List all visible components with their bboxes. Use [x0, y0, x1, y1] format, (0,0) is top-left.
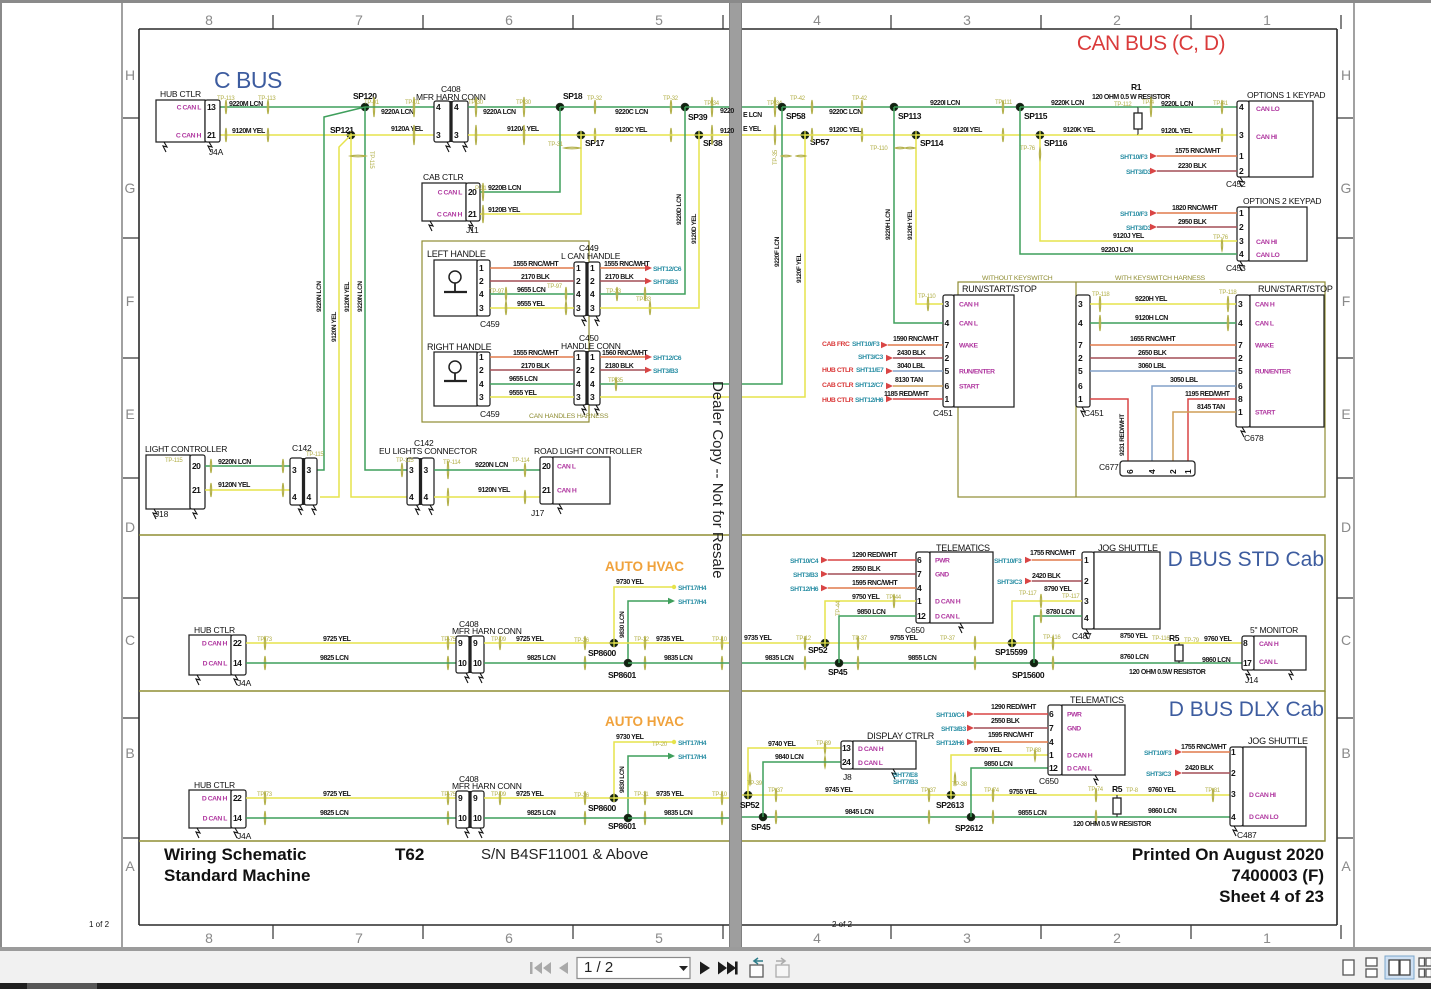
- svg-text:WITHOUT KEYSWITCH: WITHOUT KEYSWITCH: [982, 275, 1053, 282]
- svg-text:9840 LCN: 9840 LCN: [775, 754, 804, 761]
- svg-text:4: 4: [813, 930, 821, 946]
- wire 9825 LCN (hub to C408) STD: [246, 662, 456, 664]
- svg-text:9220I LCN: 9220I LCN: [930, 100, 960, 107]
- svg-text:22: 22: [233, 793, 242, 803]
- page 2 zone letter ticks: [1337, 117, 1353, 119]
- wire 9835 LCN (to page 2) DLX: [628, 817, 729, 819]
- svg-text:9220C LCN: 9220C LCN: [829, 109, 862, 116]
- svg-text:C487: C487: [1072, 631, 1092, 641]
- splice SP39: [681, 103, 689, 111]
- svg-text:TP-11: TP-11: [634, 792, 649, 798]
- svg-text:2170 BLK: 2170 BLK: [605, 274, 634, 281]
- svg-text:CAN L: CAN L: [1255, 321, 1274, 328]
- svg-text:TELEMATICS: TELEMATICS: [1070, 695, 1124, 705]
- prev page button: [559, 962, 568, 974]
- wire 9120A YEL (C408 to SP17): [468, 134, 581, 136]
- svg-text:C CAN H: C CAN H: [176, 133, 202, 140]
- svg-text:9120K YEL: 9120K YEL: [1063, 127, 1096, 134]
- svg-text:H: H: [1341, 67, 1351, 83]
- svg-text:9120B YEL: 9120B YEL: [488, 207, 521, 214]
- svg-text:9120N YEL: 9120N YEL: [331, 312, 338, 342]
- svg-text:D CAN H: D CAN H: [202, 796, 228, 803]
- svg-text:AUTO HVAC: AUTO HVAC: [605, 559, 684, 574]
- wire 9220N LCN (J18 to C142): [205, 465, 290, 467]
- splice SP57: [801, 131, 809, 139]
- svg-text:E LCN: E LCN: [743, 112, 762, 119]
- svg-text:9850 LCN: 9850 LCN: [857, 609, 886, 616]
- svg-text:MFR HARN CONN: MFR HARN CONN: [452, 626, 522, 636]
- svg-text:TP-34: TP-34: [704, 101, 720, 107]
- svg-text:TP-37: TP-37: [940, 636, 956, 642]
- svg-text:9835 LCN: 9835 LCN: [664, 655, 693, 662]
- svg-text:2650 BLK: 2650 BLK: [1138, 350, 1167, 357]
- svg-text:GND: GND: [1067, 726, 1081, 733]
- wire 9120I YEL (SP114 to SP116): [916, 134, 1040, 136]
- layout two page icon selected: [1385, 956, 1414, 979]
- svg-text:D: D: [125, 519, 135, 535]
- svg-text:9120C YEL: 9120C YEL: [829, 127, 862, 134]
- svg-text:8780 LCN: 8780 LCN: [1046, 609, 1075, 616]
- svg-text:SP8600: SP8600: [588, 648, 617, 658]
- svg-text:SHT10/F3: SHT10/F3: [1120, 154, 1148, 161]
- title block separator page 1: [139, 840, 729, 842]
- svg-text:9735 YEL: 9735 YEL: [656, 636, 685, 643]
- wire 9730 YEL DLX: [614, 742, 672, 798]
- svg-text:9120A YEL: 9120A YEL: [391, 126, 424, 133]
- svg-text:TP-115: TP-115: [368, 151, 374, 169]
- svg-text:R5: R5: [1169, 633, 1180, 643]
- svg-text:SHT10/F3: SHT10/F3: [1144, 750, 1172, 757]
- splice SP38: [695, 131, 703, 139]
- svg-text:SHT7/B3: SHT7/B3: [893, 779, 918, 786]
- svg-text:TP-4: TP-4: [1142, 100, 1155, 106]
- wire 9220I LCN (SP113 to SP115): [894, 106, 1020, 108]
- wire 1555 RNC/WHT to SHT12/C6: [600, 267, 648, 269]
- svg-text:9220L LCN: 9220L LCN: [1161, 101, 1193, 108]
- svg-text:9120L YEL: 9120L YEL: [1161, 128, 1193, 135]
- wire 9750 YEL (SP52 up to telem pin1): [825, 601, 916, 643]
- toolbar: [0, 951, 1431, 983]
- svg-text:SHT17/H4: SHT17/H4: [678, 599, 707, 606]
- page 1 drawing frame: [139, 29, 729, 925]
- wire 9825 LCN (C408 on) STD: [484, 662, 628, 664]
- test point TP-115 riser: [350, 155, 366, 157]
- svg-text:D: D: [1341, 519, 1351, 535]
- wire 2650 BLK C451 to C678: [1090, 357, 1236, 359]
- wire 8790 YEL (SP15599 up to jog pin3): [1012, 601, 1082, 643]
- svg-text:C142: C142: [292, 443, 312, 453]
- wire 2180 BLK to SHT3/B3: [600, 369, 648, 371]
- svg-text:D BUS DLX Cab: D BUS DLX Cab: [1169, 698, 1324, 721]
- svg-text:9220K LCN: 9220K LCN: [1051, 100, 1084, 107]
- svg-text:1195 RED/WHT: 1195 RED/WHT: [1185, 391, 1231, 398]
- wire 9220A LCN (SP120 to C408): [365, 106, 434, 108]
- wire 2170 BLK right handle: [490, 369, 574, 371]
- svg-text:9220N LCN: 9220N LCN: [475, 462, 508, 469]
- svg-text:F: F: [126, 293, 135, 309]
- wire 9120N YEL riser (SP121 down): [351, 135, 413, 497]
- splice SP113: [890, 103, 898, 111]
- keyswitch harness box: [958, 282, 1325, 497]
- svg-text:E: E: [125, 406, 134, 422]
- svg-text:TP-114: TP-114: [443, 460, 461, 466]
- D BUS STD section border: [139, 534, 729, 536]
- splice SP8601 DLX: [624, 814, 632, 822]
- svg-text:13: 13: [842, 743, 851, 753]
- svg-text:J17: J17: [531, 508, 545, 518]
- svg-text:9735 YEL: 9735 YEL: [744, 635, 773, 642]
- next view icon: [776, 958, 789, 977]
- svg-text:2950 BLK: 2950 BLK: [1178, 219, 1207, 226]
- svg-text:TP-8: TP-8: [1126, 788, 1139, 794]
- page 2 drawing frame: [742, 29, 1337, 925]
- wire 9220A LCN (C408 to SP18): [468, 106, 560, 108]
- svg-text:1: 1: [1263, 930, 1271, 946]
- svg-text:D CAN L: D CAN L: [203, 661, 228, 668]
- svg-text:RUN/START/STOP: RUN/START/STOP: [1258, 284, 1333, 294]
- svg-text:C451: C451: [933, 408, 953, 418]
- svg-text:14: 14: [233, 658, 242, 668]
- svg-text:C459: C459: [480, 409, 500, 419]
- svg-text:Wiring Schematic: Wiring Schematic: [164, 845, 307, 864]
- svg-text:3060 LBL: 3060 LBL: [1138, 363, 1167, 370]
- svg-text:SHT7/E8: SHT7/E8: [893, 772, 918, 779]
- svg-text:1575 RNC/WHT: 1575 RNC/WHT: [1175, 148, 1221, 155]
- svg-text:9825 LCN: 9825 LCN: [320, 655, 349, 662]
- svg-text:9120: 9120: [720, 128, 734, 135]
- svg-text:C: C: [1341, 632, 1351, 648]
- svg-text:HUB CTLR: HUB CTLR: [822, 367, 854, 374]
- wire 9835 LCN (to page 2) STD: [628, 662, 729, 664]
- wire 9220B LCN (J11 to SP18): [480, 107, 560, 192]
- svg-text:TP-35: TP-35: [773, 149, 779, 165]
- svg-text:TP-37: TP-37: [852, 636, 868, 642]
- wire 9655 LCN to page 2: [600, 383, 729, 385]
- svg-text:WITH KEYSWITCH HARNESS: WITH KEYSWITCH HARNESS: [1115, 275, 1206, 282]
- svg-text:10: 10: [458, 813, 467, 823]
- wire 9835 LCN (bus): [742, 662, 1242, 664]
- svg-text:2420 BLK: 2420 BLK: [1032, 573, 1061, 580]
- wire 9725 YEL (hub to C408) DLX: [246, 797, 456, 799]
- wire 3060 LBL C451 to C678: [1090, 370, 1236, 372]
- svg-text:SHT12/H6: SHT12/H6: [855, 397, 884, 404]
- svg-text:6: 6: [505, 12, 513, 28]
- svg-text:1185 RED/WHT: 1185 RED/WHT: [884, 391, 930, 398]
- svg-text:SHT12/C6: SHT12/C6: [653, 355, 682, 362]
- svg-text:C: C: [125, 632, 135, 648]
- svg-text:17: 17: [1243, 658, 1252, 668]
- svg-text:D CAN H: D CAN H: [858, 746, 884, 753]
- svg-text:SHT17/H4: SHT17/H4: [678, 585, 707, 592]
- svg-text:2420 BLK: 2420 BLK: [1185, 765, 1214, 772]
- svg-text:D CAN L: D CAN L: [858, 760, 883, 767]
- wire 9220H YEL C451 to C678: [1090, 303, 1236, 305]
- svg-text:CAN H: CAN H: [959, 302, 979, 309]
- svg-text:21: 21: [207, 130, 216, 140]
- wire 3050 LBL C677 to C678 pin6: [1152, 386, 1236, 461]
- wire 9120L YEL (R1 to keypad 1): [1138, 134, 1237, 136]
- svg-text:B: B: [125, 745, 134, 761]
- svg-text:CAB FRC: CAB FRC: [822, 341, 850, 348]
- wire 9220N LCN (C142 to road light controller): [434, 469, 540, 471]
- wire 9735 YEL (bus): [742, 642, 1242, 644]
- svg-text:TP-117: TP-117: [1019, 591, 1037, 597]
- svg-text:SP15600: SP15600: [1012, 670, 1045, 680]
- cab controller J11: [422, 183, 466, 221]
- svg-text:21: 21: [192, 485, 201, 495]
- svg-text:120 OHM 0.5 W RESISTOR: 120 OHM 0.5 W RESISTOR: [1092, 94, 1170, 101]
- svg-text:C CAN L: C CAN L: [438, 190, 463, 197]
- wire 9830 LCN DLX: [628, 756, 672, 818]
- svg-text:SHT17/H4: SHT17/H4: [678, 754, 707, 761]
- svg-text:A: A: [1341, 858, 1351, 874]
- svg-text:SP113: SP113: [898, 111, 922, 121]
- svg-text:4: 4: [813, 12, 821, 28]
- svg-text:9725 YEL: 9725 YEL: [323, 791, 352, 798]
- svg-text:9120N YEL: 9120N YEL: [218, 482, 251, 489]
- svg-text:5: 5: [655, 930, 663, 946]
- svg-text:TP-42: TP-42: [790, 96, 806, 102]
- svg-text:2550 BLK: 2550 BLK: [991, 718, 1020, 725]
- wire 9655 LCN right handle: [490, 383, 574, 385]
- svg-text:HUB CTLR: HUB CTLR: [822, 397, 854, 404]
- svg-text:S/N B4SF11001 & Above: S/N B4SF11001 & Above: [481, 846, 648, 863]
- D BUS DLX section border page2: [742, 691, 1325, 841]
- svg-text:9855 LCN: 9855 LCN: [1018, 810, 1047, 817]
- svg-text:SP18: SP18: [563, 91, 583, 101]
- wire 9845 LCN (bus dlx): [742, 816, 1230, 818]
- viewer left border: [0, 0, 2, 947]
- svg-text:2430 BLK: 2430 BLK: [897, 350, 926, 357]
- svg-text:RIGHT HANDLE: RIGHT HANDLE: [427, 342, 492, 352]
- svg-text:1555 RNC/WHT: 1555 RNC/WHT: [513, 261, 559, 268]
- svg-text:J4A: J4A: [237, 831, 252, 841]
- svg-text:SHT10/F3: SHT10/F3: [1120, 211, 1148, 218]
- svg-text:C650: C650: [1039, 776, 1059, 786]
- svg-text:D BUS STD Cab: D BUS STD Cab: [1168, 548, 1324, 571]
- svg-text:9760 YEL: 9760 YEL: [1204, 636, 1233, 643]
- svg-text:TP-97: TP-97: [547, 284, 563, 290]
- svg-text:E: E: [1341, 406, 1350, 422]
- layout continuous icon: [1366, 958, 1377, 977]
- page 2 sheet: [742, 3, 1355, 947]
- svg-text:SP121: SP121: [330, 125, 354, 135]
- svg-text:SP45: SP45: [751, 822, 771, 832]
- svg-text:1555 RNC/WHT: 1555 RNC/WHT: [604, 261, 650, 268]
- wire 9220N LCN riser (SP120 straight down): [365, 107, 413, 470]
- svg-text:8790 YEL: 8790 YEL: [1044, 586, 1073, 593]
- svg-text:1755 RNC/WHT: 1755 RNC/WHT: [1030, 550, 1076, 557]
- svg-text:J18: J18: [155, 509, 169, 519]
- svg-text:TP-12: TP-12: [634, 637, 650, 643]
- D BUS STD section border page2: [742, 535, 1325, 691]
- svg-text:SP58: SP58: [786, 111, 806, 121]
- svg-text:START: START: [1255, 410, 1276, 417]
- svg-text:12: 12: [917, 611, 926, 621]
- svg-text:PWR: PWR: [1067, 712, 1082, 719]
- svg-text:TP-79: TP-79: [1184, 638, 1200, 644]
- svg-text:9725 YEL: 9725 YEL: [516, 791, 545, 798]
- svg-text:1560 RNC/WHT: 1560 RNC/WHT: [602, 350, 648, 357]
- splice SP114: [912, 131, 920, 139]
- wire 2170 BLK left handle: [490, 280, 574, 282]
- svg-text:9220H YEL: 9220H YEL: [1135, 296, 1168, 303]
- svg-text:SP8600: SP8600: [588, 803, 617, 813]
- layout single page icon: [1343, 960, 1354, 975]
- svg-text:7: 7: [355, 12, 363, 28]
- svg-text:7: 7: [355, 930, 363, 946]
- wire 9120N YEL (C142 to road light controller): [434, 496, 540, 498]
- svg-text:9220F LCN: 9220F LCN: [774, 236, 781, 267]
- splice SP121: [347, 131, 355, 139]
- svg-text:6: 6: [505, 930, 513, 946]
- svg-text:9220H LCN: 9220H LCN: [885, 209, 892, 240]
- wire 9220N LCN riser (SP120 down): [317, 107, 365, 470]
- svg-text:3050 LBL: 3050 LBL: [1170, 377, 1199, 384]
- bottom scrollbar: [0, 983, 1431, 989]
- svg-text:TP-36: TP-36: [574, 638, 590, 644]
- svg-text:9120I YEL: 9120I YEL: [953, 127, 983, 134]
- svg-text:SP8601: SP8601: [608, 821, 637, 831]
- svg-text:J11: J11: [466, 225, 479, 235]
- svg-text:9725 YEL: 9725 YEL: [516, 636, 545, 643]
- svg-text:R1: R1: [1131, 82, 1142, 92]
- svg-text:SHT12/C6: SHT12/C6: [653, 266, 682, 273]
- svg-text:9220A LCN: 9220A LCN: [483, 109, 516, 116]
- svg-text:10: 10: [458, 658, 467, 668]
- svg-text:1 / 2: 1 / 2: [584, 959, 613, 976]
- svg-text:3040 LBL: 3040 LBL: [897, 363, 926, 370]
- svg-text:WAKE: WAKE: [1255, 343, 1275, 350]
- wire 9745 YEL (bus dlx): [742, 794, 1230, 796]
- wire 9555 YEL left handle: [490, 307, 574, 309]
- svg-text:E YEL: E YEL: [743, 126, 762, 133]
- svg-text:9855 LCN: 9855 LCN: [908, 655, 937, 662]
- svg-text:9120F YEL: 9120F YEL: [796, 253, 803, 283]
- svg-text:9760 YEL: 9760 YEL: [1148, 787, 1177, 794]
- svg-text:9220C LCN: 9220C LCN: [615, 109, 648, 116]
- svg-text:D CAN H: D CAN H: [1067, 753, 1093, 760]
- svg-text:9555 YEL: 9555 YEL: [509, 390, 538, 397]
- svg-text:5" MONITOR: 5" MONITOR: [1250, 625, 1298, 635]
- svg-text:J8: J8: [843, 772, 852, 782]
- svg-text:1755 RNC/WHT: 1755 RNC/WHT: [1181, 744, 1227, 751]
- svg-text:TP-76: TP-76: [1020, 146, 1036, 152]
- svg-text:G: G: [125, 180, 136, 196]
- svg-text:9745 YEL: 9745 YEL: [825, 787, 854, 794]
- wire 9735 YEL (to page 2) DLX: [614, 797, 729, 799]
- svg-text:J4A: J4A: [209, 147, 224, 157]
- splice SP18: [556, 103, 564, 111]
- svg-text:D CAN H: D CAN H: [202, 641, 228, 648]
- wire 9220J LCN (SP115 to keypad2): [1020, 107, 1237, 254]
- svg-text:1595 RNC/WHT: 1595 RNC/WHT: [988, 732, 1034, 739]
- svg-text:9835 LCN: 9835 LCN: [664, 810, 693, 817]
- svg-text:JOG SHUTTLE: JOG SHUTTLE: [1248, 736, 1308, 746]
- svg-text:SHT3/C3: SHT3/C3: [858, 354, 883, 361]
- svg-text:9830 LCN: 9830 LCN: [619, 766, 626, 793]
- svg-text:SP114: SP114: [920, 138, 944, 148]
- svg-text:J4A: J4A: [237, 678, 252, 688]
- svg-text:TP-10: TP-10: [712, 637, 728, 643]
- svg-text:1555 RNC/WHT: 1555 RNC/WHT: [513, 350, 559, 357]
- svg-text:8750 YEL: 8750 YEL: [1120, 633, 1149, 640]
- wire 9735 YEL (to page 2) STD: [614, 642, 729, 644]
- wire 9120B YEL (J11 to SP17): [480, 135, 581, 214]
- wire 9740 YEL (SP52 up to display): [748, 748, 841, 795]
- svg-text:9860 LCN: 9860 LCN: [1202, 657, 1231, 664]
- svg-text:CAN HI: CAN HI: [1256, 239, 1277, 246]
- svg-text:LEFT HANDLE: LEFT HANDLE: [427, 249, 486, 259]
- wire 9730 YEL STD: [614, 587, 672, 643]
- wire 9120N YEL riser (SP121 down left): [320, 135, 351, 497]
- wire 9120F YEL (SP57 down): [742, 135, 805, 397]
- svg-text:START: START: [959, 384, 980, 391]
- svg-text:C BUS: C BUS: [214, 67, 282, 93]
- connector C677: [1120, 461, 1195, 476]
- splice SP52 dlx2: [744, 791, 752, 799]
- svg-text:B: B: [1341, 745, 1350, 761]
- wire 9231 RED/WHT C451 to C677: [1090, 399, 1128, 461]
- svg-text:20: 20: [192, 461, 201, 471]
- wire 9220D LCN (C449 up to SP39): [600, 107, 685, 294]
- svg-text:HUB CTLR: HUB CTLR: [194, 625, 235, 635]
- svg-text:9120C YEL: 9120C YEL: [615, 127, 648, 134]
- svg-text:10: 10: [473, 658, 482, 668]
- svg-text:C451: C451: [1084, 408, 1104, 418]
- svg-text:HUB CTLR: HUB CTLR: [194, 780, 235, 790]
- svg-text:9120N YEL: 9120N YEL: [344, 282, 351, 312]
- svg-text:PWR: PWR: [935, 558, 950, 565]
- wire 9220F LCN (SP58 down to handles wire): [742, 107, 782, 384]
- wire 9750 YEL (SP2613 up to telem dlx): [951, 755, 1048, 795]
- svg-text:SHT12/H6: SHT12/H6: [936, 740, 965, 747]
- svg-text:9730 YEL: 9730 YEL: [616, 734, 645, 741]
- svg-text:SP8601: SP8601: [608, 670, 637, 680]
- svg-text:SHT3/C3: SHT3/C3: [1146, 771, 1171, 778]
- svg-text:1 of 2: 1 of 2: [89, 920, 110, 929]
- splice SP2613: [947, 791, 955, 799]
- svg-text:SP52: SP52: [808, 645, 828, 655]
- svg-text:HUB CTLR: HUB CTLR: [160, 89, 201, 99]
- page 1 zone band line: [121, 3, 123, 947]
- svg-text:8760 LCN: 8760 LCN: [1120, 654, 1149, 661]
- svg-text:CAN HI: CAN HI: [1256, 134, 1277, 141]
- wire 9120M YEL: [220, 134, 351, 136]
- svg-text:2: 2: [1113, 930, 1121, 946]
- svg-text:D CAN H: D CAN H: [935, 599, 961, 606]
- svg-text:9555 YEL: 9555 YEL: [517, 301, 546, 308]
- splice SP17: [577, 131, 585, 139]
- svg-text:SHT12/H6: SHT12/H6: [790, 586, 819, 593]
- svg-text:3: 3: [963, 12, 971, 28]
- svg-text:D CAN HI: D CAN HI: [1249, 792, 1276, 799]
- svg-text:CAN H: CAN H: [1255, 302, 1275, 309]
- wire 9825 LCN (hub to C408) DLX: [246, 817, 456, 819]
- svg-text:TP-97: TP-97: [489, 289, 505, 295]
- wire 9830 LCN STD: [628, 601, 672, 663]
- svg-text:9220J LCN: 9220J LCN: [1101, 247, 1133, 254]
- wire 9220E LCN (from page 1): [742, 106, 782, 108]
- svg-text:SHT11/E7: SHT11/E7: [856, 367, 884, 374]
- wire 9120E YEL (to page 2): [699, 134, 729, 136]
- svg-text:1290 RED/WHT: 1290 RED/WHT: [852, 552, 898, 559]
- wire 9655 LCN left handle: [490, 293, 574, 295]
- splice SP52 std2: [821, 639, 829, 647]
- wire 9555 YEL right handle: [490, 396, 574, 398]
- svg-text:C650: C650: [905, 625, 925, 635]
- splice SP8600 DLX: [610, 794, 618, 802]
